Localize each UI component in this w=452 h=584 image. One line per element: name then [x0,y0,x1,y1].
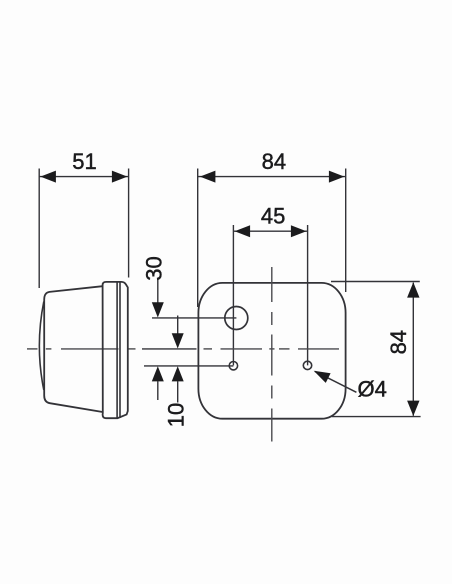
side view lens arc [39,302,43,391]
dimension 10 [163,316,188,428]
svg-text:Ø4: Ø4 [358,377,387,402]
svg-text:45: 45 [261,204,285,229]
svg-text:84: 84 [386,330,411,354]
svg-text:84: 84 [262,149,286,174]
extension line small hole level [144,365,233,367]
svg-text:10: 10 [163,403,188,427]
dimension 51 [39,149,128,288]
side view flange outline [103,282,128,418]
dimension 84 right [331,282,421,417]
dimension 30 [141,256,166,400]
dimension 84 top [198,149,346,307]
svg-text:51: 51 [72,149,96,174]
svg-text:30: 30 [141,256,166,280]
label leader Ø4 [311,366,387,402]
side view centerline [27,348,136,350]
extension line large hole level [152,317,236,319]
small hole right [303,361,311,369]
dimension 45 [233,204,307,366]
side view lamp dome outline [44,286,102,412]
flange inner edge lines [116,282,118,418]
front view horizontal centerline [204,348,340,350]
front view vertical centerline [271,267,273,442]
small hole left [229,362,237,370]
large hole [225,307,248,330]
front view rounded square [198,283,345,419]
extension line centerline level [142,348,197,350]
